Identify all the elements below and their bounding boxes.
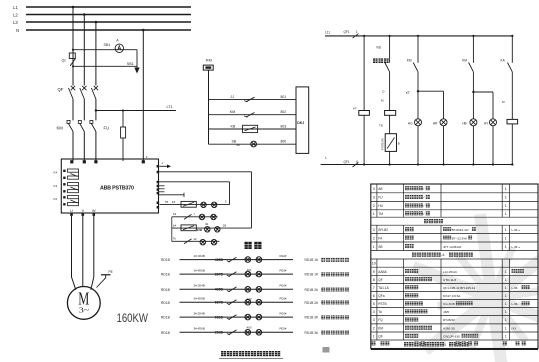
svg-text:1: 1 bbox=[373, 335, 375, 339]
svg-text:TE: TE bbox=[379, 124, 383, 128]
svg-text:HY: HY bbox=[484, 122, 489, 126]
svg-text:U: U bbox=[70, 209, 73, 213]
svg-text:3: 3 bbox=[373, 196, 375, 200]
svg-text:1# 2D4B: 1# 2D4B bbox=[194, 254, 205, 258]
svg-text:3: 3 bbox=[373, 228, 375, 232]
svg-text:L.36-: L.36- bbox=[512, 302, 519, 306]
svg-text:1: 1 bbox=[505, 335, 507, 339]
svg-text:RD1B 2#: RD1B 2# bbox=[305, 301, 319, 305]
svg-text:1: 1 bbox=[505, 212, 507, 216]
svg-text:9: 9 bbox=[373, 270, 375, 274]
svg-text:HU: HU bbox=[378, 204, 383, 208]
svg-text:QF: QF bbox=[378, 335, 382, 339]
svg-text:1: 1 bbox=[505, 318, 507, 322]
svg-text:HR: HR bbox=[433, 122, 438, 126]
svg-text:AB: AB bbox=[378, 187, 382, 191]
svg-text:3# 4D6B: 3# 4D6B bbox=[194, 327, 205, 331]
svg-text:AABA: AABA bbox=[378, 270, 387, 274]
svg-text:QF1: QF1 bbox=[344, 30, 350, 34]
svg-text:RD1B: RD1B bbox=[161, 316, 171, 320]
svg-text:KM: KM bbox=[206, 58, 212, 63]
svg-text:1: 1 bbox=[505, 187, 507, 191]
svg-text:46/5: 46/5 bbox=[443, 310, 449, 314]
svg-text:1: 1 bbox=[505, 326, 507, 330]
svg-text:BT~22.5%/: BT~22.5%/ bbox=[452, 236, 468, 240]
svg-text:V: V bbox=[82, 209, 85, 213]
svg-text:1: 1 bbox=[505, 286, 507, 290]
svg-text:JFT 1A38101: JFT 1A38101 bbox=[443, 245, 462, 249]
svg-text:1#B: 1#B bbox=[197, 228, 203, 232]
svg-text:M: M bbox=[502, 100, 505, 104]
svg-text:FQ: FQ bbox=[378, 318, 383, 322]
svg-text:RD1B: RD1B bbox=[161, 331, 171, 335]
svg-text:DX47-C8 6A: DX47-C8 6A bbox=[443, 294, 461, 298]
svg-text:Qs: Qs bbox=[62, 59, 67, 63]
svg-text:8: 8 bbox=[373, 278, 375, 282]
svg-text:KT: KT bbox=[406, 91, 410, 95]
svg-text:1: 1 bbox=[505, 302, 507, 306]
svg-text:1: 1 bbox=[505, 270, 507, 274]
svg-text:R02#: R02# bbox=[280, 297, 287, 301]
svg-text:TM: TM bbox=[378, 212, 383, 216]
svg-text:R02#: R02# bbox=[280, 254, 287, 258]
svg-text:1# 4D6B: 1# 4D6B bbox=[194, 269, 205, 273]
svg-text:10: 10 bbox=[372, 262, 376, 266]
svg-text:02: 02 bbox=[205, 222, 209, 226]
svg-text:801: 801 bbox=[281, 95, 287, 99]
svg-text:M: M bbox=[381, 99, 384, 103]
svg-text:L.36-+: L.36-+ bbox=[512, 245, 521, 249]
svg-text:/: / bbox=[423, 196, 424, 200]
svg-text:1#: 1# bbox=[172, 200, 176, 204]
svg-text:KM: KM bbox=[230, 110, 235, 114]
svg-text:1: 1 bbox=[505, 204, 507, 208]
svg-text:TA1.1A: TA1.1A bbox=[378, 286, 389, 290]
svg-text:1: 1 bbox=[505, 236, 507, 240]
svg-text:KB: KB bbox=[377, 46, 381, 50]
svg-text:L3: L3 bbox=[13, 20, 18, 25]
svg-text:90: 90 bbox=[237, 143, 241, 147]
svg-text:RD1B: RD1B bbox=[161, 258, 171, 262]
svg-text:QFa: QFa bbox=[378, 294, 384, 298]
svg-text:RT28/32: RT28/32 bbox=[443, 318, 455, 322]
svg-text:800: 800 bbox=[281, 140, 287, 144]
svg-text:L11: L11 bbox=[325, 31, 330, 35]
svg-text:4: 4 bbox=[373, 187, 375, 191]
svg-text:QF1: QF1 bbox=[344, 160, 350, 164]
svg-text:160KW: 160KW bbox=[117, 311, 149, 325]
svg-text:QF: QF bbox=[58, 87, 64, 92]
svg-text:RD1B 1#: RD1B 1# bbox=[305, 258, 319, 262]
svg-text:W: W bbox=[92, 209, 96, 213]
svg-text:KB: KB bbox=[231, 124, 236, 128]
svg-text:1: 1 bbox=[505, 278, 507, 282]
svg-text:3~: 3~ bbox=[79, 305, 90, 314]
svg-text:R02#: R02# bbox=[280, 284, 287, 288]
svg-text:FU: FU bbox=[104, 126, 110, 131]
svg-text:L1: L1 bbox=[13, 5, 18, 10]
svg-text:FA: FA bbox=[378, 236, 383, 240]
svg-text:2: 2 bbox=[373, 326, 375, 330]
svg-text:/: / bbox=[423, 212, 424, 216]
svg-text:1: 1 bbox=[356, 30, 358, 34]
svg-text:PSTB370: PSTB370 bbox=[380, 138, 384, 150]
svg-text:SB: SB bbox=[378, 245, 382, 249]
svg-text:6D7B: 6D7B bbox=[215, 301, 224, 305]
svg-text:KA: KA bbox=[501, 59, 506, 63]
svg-text:KT: KT bbox=[353, 106, 357, 110]
svg-text:1#: 1# bbox=[173, 212, 177, 216]
svg-text:4D5B: 4D5B bbox=[215, 258, 224, 262]
svg-text:2# 4D6B: 2# 4D6B bbox=[194, 297, 205, 301]
svg-text:1#: 1# bbox=[173, 223, 177, 227]
svg-text:2: 2 bbox=[373, 204, 375, 208]
svg-text:RD1B: RD1B bbox=[161, 301, 171, 305]
svg-text:402: 402 bbox=[247, 297, 252, 301]
svg-text:1: 1 bbox=[373, 245, 375, 249]
svg-text:R02#: R02# bbox=[280, 327, 287, 331]
svg-text:0D1B: 0D1B bbox=[215, 315, 224, 319]
svg-text:N: N bbox=[16, 28, 19, 33]
svg-text:DKJ: DKJ bbox=[297, 121, 304, 125]
svg-text:2D3B: 2D3B bbox=[215, 331, 224, 335]
svg-text:1: 1 bbox=[373, 212, 375, 216]
svg-text:3: 3 bbox=[225, 199, 227, 203]
svg-text:R02#: R02# bbox=[280, 312, 287, 316]
svg-text:7k: 7k bbox=[173, 237, 177, 241]
svg-text:1: 1 bbox=[162, 161, 164, 165]
svg-text:3: 3 bbox=[373, 318, 375, 322]
svg-text:LT1: LT1 bbox=[167, 105, 173, 109]
svg-text:HG: HG bbox=[408, 122, 413, 126]
svg-text:LAI-25/AC: LAI-25/AC bbox=[443, 270, 458, 274]
svg-text:K4: K4 bbox=[54, 171, 58, 175]
svg-text:401: 401 bbox=[247, 268, 252, 272]
svg-text:PSTB: PSTB bbox=[378, 302, 386, 306]
svg-text:1: 1 bbox=[505, 196, 507, 200]
svg-text:L.36-: L.36- bbox=[512, 286, 519, 290]
svg-text:K2: K2 bbox=[54, 197, 58, 201]
svg-text:KM: KM bbox=[407, 59, 412, 63]
svg-text:802: 802 bbox=[281, 110, 287, 114]
svg-text:KM: KM bbox=[462, 59, 467, 63]
svg-text:PE: PE bbox=[109, 270, 113, 274]
svg-text:1: 1 bbox=[505, 294, 507, 298]
svg-text:5: 5 bbox=[373, 302, 375, 306]
svg-text:UTD-11/3: UTD-11/3 bbox=[443, 278, 456, 282]
svg-text:CW1JR-630: CW1JR-630 bbox=[443, 335, 460, 339]
svg-text:28: 28 bbox=[223, 223, 227, 227]
svg-text:7: 7 bbox=[193, 212, 195, 216]
svg-text:L.36-+: L.36-+ bbox=[512, 228, 521, 232]
svg-text:QF1-105-11 BH-105-11: QF1-105-11 BH-105-11 bbox=[443, 286, 475, 290]
svg-text:ABB PSTB370: ABB PSTB370 bbox=[100, 185, 134, 191]
svg-text:803: 803 bbox=[281, 124, 287, 128]
svg-text:RD1B 3#: RD1B 3# bbox=[305, 331, 319, 335]
svg-text:B: B bbox=[398, 142, 400, 146]
svg-text:78: 78 bbox=[165, 200, 169, 204]
svg-text:2# 2D4B: 2# 2D4B bbox=[194, 284, 205, 288]
svg-text:BT-8061-22/: BT-8061-22/ bbox=[452, 228, 469, 232]
svg-text:HB: HB bbox=[462, 122, 466, 126]
svg-text:12: 12 bbox=[193, 237, 197, 241]
svg-text:6: 6 bbox=[373, 294, 375, 298]
svg-text:3# 2D4B: 3# 2D4B bbox=[194, 312, 205, 316]
svg-text:A260-30: A260-30 bbox=[443, 326, 455, 330]
svg-text:KM: KM bbox=[57, 126, 64, 131]
svg-text:R02#: R02# bbox=[280, 269, 287, 273]
svg-text:403: 403 bbox=[247, 325, 252, 329]
svg-text:SB1: SB1 bbox=[127, 62, 134, 66]
svg-text:D: D bbox=[382, 90, 385, 94]
svg-text:RD1B: RD1B bbox=[161, 273, 171, 277]
svg-text:/: / bbox=[423, 204, 424, 208]
svg-text:2: 2 bbox=[373, 236, 375, 240]
svg-text:4D5B: 4D5B bbox=[215, 288, 224, 292]
svg-text:RD1B 3#: RD1B 3# bbox=[305, 316, 319, 320]
svg-text:KM: KM bbox=[378, 326, 383, 330]
svg-text:1: 1 bbox=[325, 156, 327, 160]
svg-text:K3: K3 bbox=[54, 184, 58, 188]
svg-text:QF: QF bbox=[378, 278, 382, 282]
svg-text:CG-3CB: CG-3CB bbox=[443, 302, 455, 306]
svg-text:RD1B 2#: RD1B 2# bbox=[305, 288, 319, 292]
svg-text:7: 7 bbox=[373, 286, 375, 290]
svg-text:Ta: Ta bbox=[378, 310, 382, 314]
svg-text:|XX: |XX bbox=[512, 326, 517, 330]
svg-text:A: A bbox=[116, 39, 119, 43]
svg-text:-4-: -4- bbox=[441, 253, 445, 257]
svg-text:1: 1 bbox=[505, 310, 507, 314]
svg-text:6D7B: 6D7B bbox=[215, 272, 224, 276]
svg-text:/: / bbox=[423, 187, 424, 191]
svg-text:L2: L2 bbox=[13, 12, 18, 17]
svg-text:RD1B: RD1B bbox=[161, 288, 171, 292]
svg-text:JJ: JJ bbox=[231, 95, 235, 99]
svg-text:3: 3 bbox=[444, 343, 446, 347]
svg-text:SB: SB bbox=[232, 140, 237, 144]
svg-text:RD1B 1#: RD1B 1# bbox=[305, 273, 319, 277]
svg-text:1: 1 bbox=[505, 245, 507, 249]
svg-text:SFLB2: SFLB2 bbox=[378, 228, 388, 232]
svg-text:1: 1 bbox=[505, 228, 507, 232]
svg-text:FU: FU bbox=[378, 196, 383, 200]
svg-text:SB1: SB1 bbox=[104, 43, 111, 47]
svg-text:4: 4 bbox=[373, 310, 375, 314]
